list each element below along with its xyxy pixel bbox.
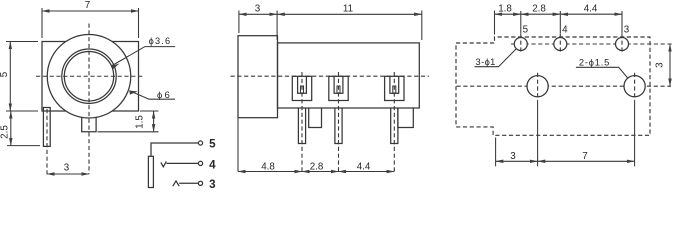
bottom view pin hole 3 <box>616 38 629 51</box>
svg-text:3: 3 <box>510 151 516 162</box>
svg-text:4: 4 <box>562 25 568 36</box>
label phi6 leader <box>129 91 175 100</box>
svg-text:1.8: 1.8 <box>498 4 512 15</box>
dimension 4.4 line <box>339 171 395 173</box>
dimension 1.8 extension lines <box>494 11 496 35</box>
svg-text:2.8: 2.8 <box>310 162 324 173</box>
bottom view big hole centerline <box>457 85 672 87</box>
schematic terminal 4 circle <box>198 161 202 165</box>
front view hole circle phi3.6 <box>64 52 113 101</box>
front view bushing circle phi6 <box>47 35 131 119</box>
bottom view pin hole 3 vertical centerline <box>621 34 623 55</box>
side view bushing face extension <box>237 118 239 172</box>
bottom dims extension lines <box>495 138 497 167</box>
bottom view mounting hole 2 vertical centerline <box>634 73 636 100</box>
dimension 7 bottom line <box>538 160 635 162</box>
side view slot 2 housing <box>329 76 348 100</box>
front view horizontal centerline <box>36 75 144 77</box>
bottom view mounting hole 1 <box>527 76 548 97</box>
side view slot 3 contact U <box>390 76 399 93</box>
svg-text:2.8: 2.8 <box>532 4 546 15</box>
dimension 1.5 line <box>153 111 155 132</box>
side view slot 1 housing <box>292 76 311 100</box>
svg-text:4.4: 4.4 <box>584 4 598 15</box>
dimension 7 extension lines <box>41 8 43 38</box>
side view mounting tab left <box>309 108 322 128</box>
svg-text:3: 3 <box>654 62 665 68</box>
dimension 3 top line <box>239 13 277 15</box>
dimension 5 line <box>9 42 11 112</box>
label 3-phi1 leader <box>475 49 517 67</box>
bottom view pin row centerline <box>511 43 672 45</box>
svg-text:4.8: 4.8 <box>261 162 275 173</box>
svg-text:5: 5 <box>209 137 216 150</box>
bottom view mounting hole 2 <box>624 76 645 97</box>
dimension 3 right line <box>669 44 671 86</box>
front view left pin centerline <box>46 109 48 174</box>
front view vertical centerline <box>88 24 90 175</box>
schematic contact 3 spring <box>173 181 179 186</box>
side view pin 2 <box>335 108 342 144</box>
side view pin 1 centerline <box>301 72 303 172</box>
side view horizontal centerline <box>231 75 430 77</box>
side view pin 3 <box>391 108 398 144</box>
bottom view mounting hole 1 vertical centerline <box>537 73 539 100</box>
side view slot 2 contact tip <box>337 86 340 93</box>
bottom view pin hole 4 <box>554 38 567 51</box>
side view slot 3 contact tip <box>393 86 396 93</box>
bottom view pin hole 4 vertical centerline <box>559 34 561 55</box>
side view slot 2 contact U <box>334 76 343 93</box>
svg-text:3-ϕ1: 3-ϕ1 <box>476 57 496 67</box>
dimension 2.5 line <box>10 111 12 146</box>
dimension 4.8 line <box>238 171 302 173</box>
label phi3.6 leader <box>111 47 175 66</box>
schematic wire to terminal 5 <box>151 143 198 156</box>
svg-text:7: 7 <box>85 0 90 11</box>
svg-text:2-ϕ1.5: 2-ϕ1.5 <box>579 57 610 67</box>
bottom view pin hole 5 <box>514 38 527 51</box>
side view slot 1 contact tip <box>301 86 304 93</box>
dimension 11 line <box>277 13 422 15</box>
schematic wire to terminal 3 <box>179 182 198 184</box>
svg-text:1.5: 1.5 <box>135 115 146 129</box>
schematic contact 4 spring <box>161 161 166 166</box>
svg-text:2.5: 2.5 <box>0 125 10 139</box>
svg-text:ϕ3.6: ϕ3.6 <box>149 36 172 46</box>
label 2-phi1.5 leader <box>576 67 628 78</box>
side view pin 2 centerline <box>338 72 340 172</box>
front view ring circle <box>62 49 116 103</box>
dimension 3 line <box>47 173 89 175</box>
schematic wire to terminal 4 <box>166 162 198 164</box>
schematic sleeve contact <box>148 156 153 187</box>
dimension 2.8 right line <box>521 13 561 15</box>
dimension 1.5 extension lines <box>140 110 159 112</box>
schematic terminal 5 circle <box>198 141 202 145</box>
dimension 3 bottom line <box>496 160 538 162</box>
bottom view outline <box>456 37 650 135</box>
dimension 2.5 extension line <box>7 145 40 147</box>
dimension 7 line <box>42 10 139 12</box>
svg-text:3: 3 <box>624 25 630 36</box>
side view pin 1 <box>298 108 305 144</box>
svg-text:7: 7 <box>582 151 587 162</box>
side view slot 1 contact U <box>298 76 307 93</box>
schematic terminal 3 circle <box>198 181 202 185</box>
svg-text:11: 11 <box>343 4 353 15</box>
svg-text:3: 3 <box>209 178 216 191</box>
dimension 1.8 line <box>495 13 521 15</box>
dimension 3 top extension lines <box>238 11 240 34</box>
dimension 4.4 right line <box>560 13 622 15</box>
side view bushing <box>238 36 278 118</box>
side view slot 3 housing <box>385 76 404 100</box>
side view body <box>278 43 420 108</box>
side view mounting tab right <box>398 108 413 128</box>
front view left pin <box>43 108 50 147</box>
dimension 5 extension lines <box>6 41 38 43</box>
svg-text:4: 4 <box>209 158 216 171</box>
front view body <box>42 42 139 112</box>
dimension 2.8 line <box>302 171 339 173</box>
svg-text:ϕ6: ϕ6 <box>157 90 172 101</box>
svg-text:5: 5 <box>0 71 10 77</box>
svg-text:5: 5 <box>523 25 529 36</box>
svg-text:3: 3 <box>255 4 261 15</box>
svg-text:3: 3 <box>64 163 70 174</box>
svg-text:4.4: 4.4 <box>357 162 371 173</box>
side view pin 3 centerline <box>393 72 395 172</box>
bottom view pin hole 5 vertical centerline <box>520 34 522 55</box>
front view center pin <box>82 111 96 132</box>
